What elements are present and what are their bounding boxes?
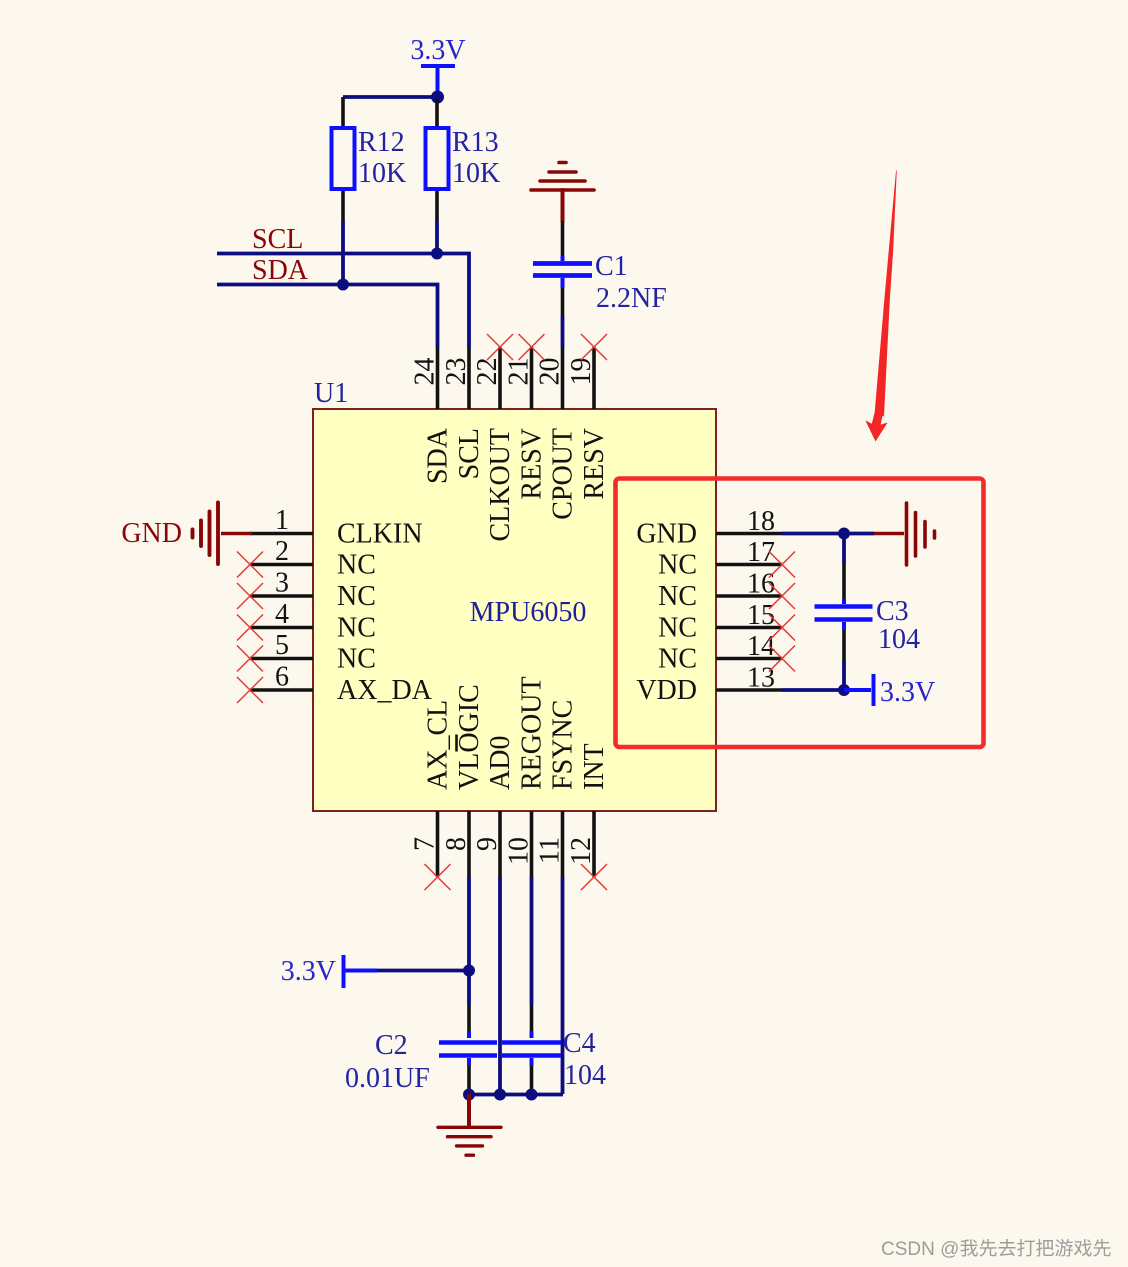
wire: pin 10 down bbox=[530, 877, 534, 1005]
junction dot: bus/pin8 bbox=[463, 1089, 475, 1101]
SECTION: bottom net bbox=[281, 877, 606, 1155]
wire: ground bus bbox=[469, 1093, 563, 1097]
svg-text:CSDN @: CSDN @ bbox=[881, 1239, 959, 1260]
left pin numbers 1-6 bbox=[275, 505, 289, 693]
SECTION: annotations bbox=[616, 170, 1111, 1260]
right pin numbers 18-13 bbox=[747, 506, 775, 694]
pin 19 RESV stub bbox=[592, 347, 596, 409]
wire: 3.3V node to R12 top bbox=[343, 95, 437, 99]
no-connect X pins 2-6 bbox=[237, 552, 263, 704]
svg-text:AD0: AD0 bbox=[485, 736, 516, 790]
annotation red rectangle bbox=[616, 479, 984, 748]
pin 6 stub bbox=[250, 688, 313, 692]
svg-text:NC: NC bbox=[658, 581, 697, 612]
svg-text:GND: GND bbox=[636, 519, 697, 550]
capacitor C3 bbox=[815, 535, 921, 690]
junction dot: bus/pin10 bbox=[526, 1089, 538, 1101]
junction dot: R13/SCL bbox=[431, 248, 443, 260]
svg-text:10: 10 bbox=[504, 837, 535, 865]
svg-text:23: 23 bbox=[441, 358, 472, 386]
svg-text:9: 9 bbox=[472, 837, 503, 851]
SECTION: top pull-up network bbox=[217, 35, 667, 347]
pin 10 REGOUT stub bbox=[530, 811, 534, 877]
svg-text:CLKIN: CLKIN bbox=[337, 519, 423, 550]
capacitor C2 bbox=[345, 1005, 497, 1094]
svg-text:6: 6 bbox=[275, 662, 289, 693]
wire: 3.3V to pin 8 net bbox=[377, 969, 469, 973]
pin 8 VLOGIC stub bbox=[467, 811, 471, 877]
capacitor C4 bbox=[502, 1005, 606, 1091]
svg-text:C3: C3 bbox=[876, 596, 909, 627]
power port 3.3V (bottom) bbox=[281, 955, 377, 988]
svg-text:12: 12 bbox=[566, 837, 597, 865]
wire: pin 13 VDD to 3.3V bbox=[782, 688, 844, 692]
svg-text:AX_CL: AX_CL bbox=[423, 700, 454, 790]
ground symbol (left of pin 1) bbox=[193, 503, 219, 565]
pin 9 AD0 stub bbox=[498, 811, 502, 877]
svg-text:GND: GND bbox=[121, 518, 182, 549]
resistor R12 bbox=[332, 97, 407, 221]
pin 12 INT stub bbox=[592, 811, 596, 877]
pin 3 stub bbox=[250, 594, 313, 598]
pin 14 stub bbox=[716, 657, 782, 661]
svg-text:0.01UF: 0.01UF bbox=[345, 1063, 430, 1094]
svg-text:NC: NC bbox=[658, 644, 697, 675]
junction dot: 3.3V/pin8 bbox=[463, 965, 475, 977]
bottom pin numbers 7-12 (rotated) bbox=[410, 837, 598, 865]
wire: pin 11 down bbox=[561, 877, 565, 1094]
svg-text:3: 3 bbox=[275, 568, 289, 599]
junction dot: 3.3V node bbox=[431, 91, 444, 104]
svg-text:1: 1 bbox=[275, 505, 289, 536]
svg-text:18: 18 bbox=[747, 506, 775, 537]
ground symbol (bottom earth) bbox=[438, 1127, 501, 1155]
svg-text:CLKOUT: CLKOUT bbox=[485, 428, 516, 542]
power port 3.3V (top) bbox=[410, 35, 465, 93]
svg-text:VLOGIC: VLOGIC bbox=[454, 684, 485, 790]
svg-text:CPOUT: CPOUT bbox=[548, 428, 579, 520]
svg-text:NC: NC bbox=[337, 581, 376, 612]
left pin names bbox=[337, 519, 433, 707]
pin 1 CLKIN stub bbox=[250, 532, 313, 536]
junction dot: bus/pin9 bbox=[494, 1089, 506, 1101]
wire: pin 8 down bbox=[467, 877, 471, 1005]
svg-text:NC: NC bbox=[337, 644, 376, 675]
pin 23 SCL stub bbox=[467, 347, 471, 409]
svg-text:5: 5 bbox=[275, 630, 289, 661]
overline on O of VLOGIC bbox=[455, 735, 458, 752]
pin 5 stub bbox=[250, 657, 313, 661]
svg-text:SDA: SDA bbox=[423, 427, 454, 484]
svg-text:C2: C2 bbox=[375, 1030, 408, 1061]
svg-text:SDA: SDA bbox=[252, 255, 309, 286]
svg-text:FSYNC: FSYNC bbox=[548, 700, 579, 790]
svg-text:NC: NC bbox=[658, 613, 697, 644]
svg-text:104: 104 bbox=[878, 624, 920, 655]
pin 7 AX_CL stub bbox=[436, 811, 440, 877]
svg-text:3.3V: 3.3V bbox=[281, 956, 336, 987]
SECTION: right net bbox=[121, 503, 935, 709]
wire: SCL bus to pin 23 bbox=[217, 254, 469, 348]
svg-text:11: 11 bbox=[535, 837, 566, 864]
resistor R13 bbox=[426, 99, 501, 221]
top pin numbers 24-19 (rotated) bbox=[410, 358, 598, 386]
annotation red arrow bbox=[875, 170, 897, 416]
svg-text:MPU6050: MPU6050 bbox=[470, 597, 587, 628]
svg-text:7: 7 bbox=[410, 837, 441, 851]
svg-text:20: 20 bbox=[535, 358, 566, 386]
svg-text:C4: C4 bbox=[563, 1028, 596, 1059]
top pin names (rotated) bbox=[423, 427, 611, 541]
wire: pin 18 to right ground bbox=[782, 532, 874, 536]
svg-text:RESV: RESV bbox=[517, 428, 548, 500]
svg-text:R13: R13 bbox=[452, 127, 499, 158]
pin 13 VDD stub bbox=[716, 688, 782, 692]
svg-text:19: 19 bbox=[566, 358, 597, 386]
pin 2 stub bbox=[250, 563, 313, 567]
wire: SDA bus to pin 24 bbox=[217, 285, 438, 348]
ground (above C1, inverted earth) bbox=[531, 163, 594, 222]
svg-text:24: 24 bbox=[410, 358, 441, 386]
svg-text:REGOUT: REGOUT bbox=[517, 676, 548, 790]
svg-text:104: 104 bbox=[564, 1060, 606, 1091]
ground symbol (right) bbox=[907, 503, 935, 565]
svg-text:R12: R12 bbox=[358, 127, 405, 158]
svg-text:21: 21 bbox=[504, 358, 535, 386]
svg-text:NC: NC bbox=[337, 550, 376, 581]
no-connect X pins 22,21,19 bbox=[487, 334, 607, 360]
svg-text:U1: U1 bbox=[314, 378, 348, 409]
svg-text:C1: C1 bbox=[595, 251, 628, 282]
wire: R13 bottom to SCL bbox=[435, 221, 439, 253]
svg-text:8: 8 bbox=[441, 837, 472, 851]
no-connect X pins 17-14 bbox=[769, 552, 795, 672]
junction dot: VDD/C3 bbox=[838, 684, 850, 696]
svg-text:AX_DA: AX_DA bbox=[337, 675, 433, 706]
pin 22 CLKOUT stub bbox=[498, 347, 502, 409]
pin 24 SDA stub bbox=[436, 347, 440, 409]
pin 16 stub bbox=[716, 594, 782, 598]
svg-text:RESV: RESV bbox=[579, 428, 610, 500]
power port 3.3V (right) bbox=[844, 674, 935, 708]
svg-text:3.3V: 3.3V bbox=[880, 677, 935, 708]
svg-text:SCL: SCL bbox=[252, 224, 303, 255]
pin 21 RESV stub bbox=[530, 347, 534, 409]
pin 4 stub bbox=[250, 626, 313, 630]
svg-text:NC: NC bbox=[658, 550, 697, 581]
svg-text:VDD: VDD bbox=[636, 675, 697, 706]
wire: C1 to pin 20 bbox=[561, 316, 565, 347]
wire: bus to bottom ground bbox=[467, 1094, 471, 1128]
svg-text:13: 13 bbox=[747, 663, 775, 694]
svg-text:INT: INT bbox=[579, 743, 610, 790]
svg-text:3.3V: 3.3V bbox=[410, 35, 465, 66]
capacitor C1 bbox=[533, 221, 667, 316]
svg-text:10K: 10K bbox=[358, 158, 406, 189]
pin 17 stub bbox=[716, 563, 782, 567]
svg-text:2.2NF: 2.2NF bbox=[596, 283, 667, 314]
pin 18 GND stub bbox=[716, 532, 782, 536]
bottom pin names (rotated) bbox=[423, 676, 611, 790]
svg-text:2: 2 bbox=[275, 536, 289, 567]
svg-text:22: 22 bbox=[472, 358, 503, 386]
SECTION: IC bbox=[237, 334, 795, 890]
right pin names bbox=[636, 519, 697, 707]
wire: left GND to pin 1 bbox=[221, 532, 252, 535]
pin 15 stub bbox=[716, 626, 782, 630]
junction dot: GND/C3 bbox=[838, 528, 850, 540]
svg-text:10K: 10K bbox=[452, 158, 500, 189]
pin 11 FSYNC stub bbox=[561, 811, 565, 877]
svg-text:NC: NC bbox=[337, 613, 376, 644]
wire: pin 9 down bbox=[498, 877, 502, 1094]
no-connect X pins 7,12 bbox=[425, 864, 608, 890]
pin 20 CPOUT stub bbox=[561, 347, 565, 409]
junction dot: R12/SDA bbox=[337, 279, 349, 291]
op IC U1 MPU6050 body bbox=[313, 409, 716, 811]
svg-text:4: 4 bbox=[275, 599, 289, 630]
wire: R12 bottom to SDA bbox=[341, 221, 345, 284]
svg-text:SCL: SCL bbox=[454, 428, 485, 479]
